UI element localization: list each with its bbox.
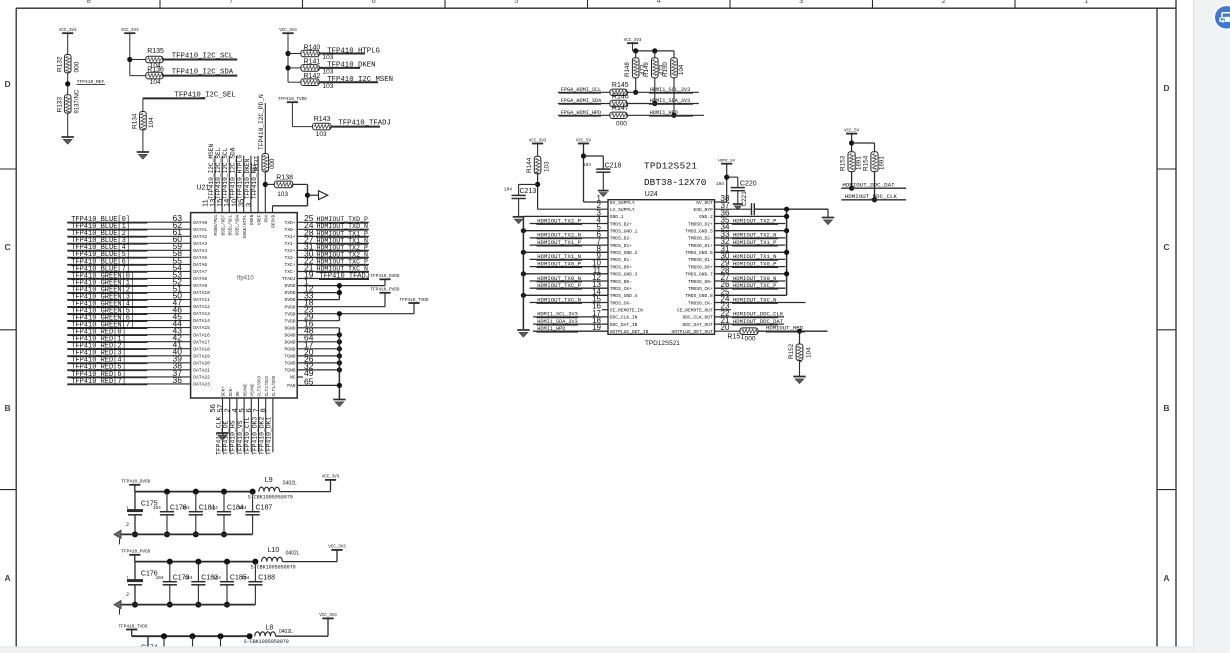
svg-text:TMDS_D1-: TMDS_D1-: [610, 257, 632, 263]
svg-text:TFP410_I2C_SCL: TFP410_I2C_SCL: [172, 53, 233, 61]
svg-text:R142: R142: [304, 73, 321, 80]
svg-text:L8: L8: [266, 625, 274, 632]
svg-text:DATA23: DATA23: [193, 382, 210, 388]
svg-text:TGND: TGND: [284, 368, 295, 374]
svg-text:VCC_5V: VCC_5V: [576, 139, 592, 143]
svg-text:DATA2: DATA2: [193, 234, 207, 240]
svg-text:HDMI1_SCL_3V3: HDMI1_SCL_3V3: [650, 87, 690, 93]
svg-text:R154: R154: [863, 155, 870, 171]
svg-text:TFP410_RED[7]: TFP410_RED[7]: [71, 378, 126, 386]
svg-text:HDMIOUT_TXD_P: HDMIOUT_TXD_P: [317, 216, 368, 223]
svg-text:HDMIOUT_TX2_N: HDMIOUT_TX2_N: [733, 232, 777, 239]
svg-text:TMDS_CK-: TMDS_CK-: [610, 300, 632, 306]
svg-text:C220: C220: [740, 180, 757, 187]
svg-text:NC: NC: [290, 375, 296, 381]
svg-text:DATA18: DATA18: [193, 346, 210, 352]
svg-text:104: 104: [150, 79, 161, 86]
svg-text:TFP410_TFADJ: TFP410_TFADJ: [338, 120, 391, 128]
svg-text:tfp410: tfp410: [237, 276, 254, 282]
svg-text:DDC_CLK_OUT: DDC_CLK_OUT: [682, 315, 713, 321]
svg-text:DATA21: DATA21: [193, 367, 210, 373]
svg-text:D: D: [1163, 83, 1169, 93]
svg-text:VSYNC: VSYNC: [251, 383, 256, 396]
svg-text:HDMIOUT_TXC_P: HDMIOUT_TXC_P: [317, 258, 368, 265]
svg-text:TFP410_I2C_MSEN: TFP410_I2C_MSEN: [327, 76, 393, 84]
svg-text:DKEN: DKEN: [250, 214, 255, 225]
svg-text:R144: R144: [526, 157, 533, 173]
svg-text:VCC_3V3: VCC_3V3: [624, 39, 642, 43]
svg-text:104: 104: [148, 117, 155, 128]
svg-text:HDMI1_HPD: HDMI1_HPD: [650, 110, 678, 116]
svg-text:HDMIOUT_TXC_N: HDMIOUT_TXC_N: [733, 296, 777, 303]
svg-text:TVDD: TVDD: [284, 311, 295, 317]
svg-text:TMDS_GND.6: TMDS_GND.6: [685, 250, 713, 256]
svg-text:HDMIOUT_TX1_P: HDMIOUT_TX1_P: [537, 239, 581, 246]
svg-text:104: 104: [678, 64, 685, 75]
svg-text:HDMI1_HPD: HDMI1_HPD: [537, 326, 565, 332]
svg-text:DATA0: DATA0: [193, 220, 207, 226]
svg-text:HDMI1_SDA_3V3: HDMI1_SDA_3V3: [650, 98, 690, 104]
svg-text:DVDD: DVDD: [284, 297, 295, 303]
svg-text:DCK-: DCK-: [229, 386, 234, 396]
svg-text:C: C: [1163, 242, 1169, 252]
svg-text:DE: DE: [236, 391, 241, 397]
svg-text:DATA22: DATA22: [193, 375, 210, 381]
svg-text:TFP410_PVDD: TFP410_PVDD: [371, 288, 400, 293]
svg-text:TMDS_D0-: TMDS_D0-: [610, 279, 632, 285]
svg-text:HDMIOUT_TX0_N: HDMIOUT_TX0_N: [733, 275, 777, 282]
svg-text:HSYNC: HSYNC: [243, 383, 248, 396]
svg-text:104: 104: [716, 181, 724, 187]
svg-text:TFP410_DK3: TFP410_DK3: [251, 416, 258, 455]
svg-text:104: 104: [153, 505, 161, 511]
svg-text:5: 5: [514, 0, 518, 5]
svg-text:FPGA_HDMI_SDA: FPGA_HDMI_SDA: [561, 98, 602, 104]
svg-text:HDMIOUT_TX1_P: HDMIOUT_TX1_P: [733, 239, 777, 246]
svg-text:DATA7: DATA7: [193, 269, 207, 275]
svg-text:B: B: [1163, 403, 1169, 413]
svg-text:TFP410_HS: TFP410_HS: [230, 420, 237, 455]
svg-text:BSEL/RST: BSEL/RST: [221, 214, 226, 235]
svg-text:2: 2: [126, 522, 129, 528]
svg-text:6: 6: [372, 0, 376, 5]
svg-text:TX1-: TX1-: [284, 241, 295, 247]
svg-text:HDMIOUT_TXC_P: HDMIOUT_TXC_P: [537, 282, 581, 289]
svg-text:TMDS_GND.1: TMDS_GND.1: [610, 229, 638, 235]
svg-text:VCC_3V3: VCC_3V3: [121, 29, 139, 33]
svg-text:TFP410_HTPLG: TFP410_HTPLG: [327, 47, 380, 55]
svg-text:HDMI_5V: HDMI_5V: [718, 160, 735, 164]
svg-text:3: 3: [244, 203, 253, 207]
svg-text:3: 3: [799, 0, 803, 5]
svg-text:104: 104: [156, 575, 164, 581]
svg-text:HDMIOUT_TX1_N: HDMIOUT_TX1_N: [733, 253, 777, 260]
svg-text:TGND: TGND: [284, 354, 295, 360]
svg-text:HDMIOUT_TX1_N: HDMIOUT_TX1_N: [537, 253, 581, 260]
svg-text:R133: R133: [57, 97, 64, 113]
svg-text:HDMIOUT_TX1_N: HDMIOUT_TX1_N: [317, 237, 368, 244]
svg-text:HDMIOUT_TXC_N: HDMIOUT_TXC_N: [537, 296, 581, 303]
svg-text:DVDD: DVDD: [284, 290, 295, 296]
svg-text:BSEL/SCL: BSEL/SCL: [229, 214, 234, 235]
svg-text:FPGA_HDMI_HPD: FPGA_HDMI_HPD: [561, 110, 601, 116]
svg-text:TMDS_D2-: TMDS_D2-: [610, 236, 632, 242]
svg-text:TMDSO_D0-: TMDSO_D0-: [688, 279, 713, 285]
svg-text:DATA15: DATA15: [193, 325, 210, 331]
svg-text:DATA13: DATA13: [193, 311, 210, 317]
svg-text:TFADJ: TFADJ: [282, 276, 296, 282]
svg-text:TFP410_DVDD: TFP410_DVDD: [121, 480, 150, 485]
svg-text:TFP410_I2C_SDA: TFP410_I2C_SDA: [229, 147, 236, 199]
svg-text:HOTPLUG_DET_IN: HOTPLUG_DET_IN: [610, 329, 649, 335]
svg-text:HDMIOUT_TXD_N: HDMIOUT_TXD_N: [317, 223, 368, 230]
svg-text:CLT2/DV2: CLT2/DV2: [265, 375, 270, 396]
svg-text:HDMI1_SDA_3V3: HDMI1_SDA_3V3: [537, 319, 577, 325]
svg-text:2: 2: [942, 0, 946, 5]
svg-text:TFP410_CTL: TFP410_CTL: [244, 416, 251, 455]
svg-text:TFP410_DKEN: TFP410_DKEN: [244, 158, 251, 199]
svg-text:TFP410_VS: TFP410_VS: [237, 420, 244, 455]
svg-text:TFP410_TFADJ: TFP410_TFADJ: [320, 272, 370, 280]
svg-text:L9: L9: [265, 477, 273, 484]
svg-text:DATA4: DATA4: [193, 248, 207, 254]
svg-text:4: 4: [657, 0, 661, 5]
svg-text:PD#: PD#: [265, 214, 270, 222]
svg-text:R146: R146: [612, 93, 629, 100]
svg-text:000: 000: [74, 61, 81, 72]
svg-text:TMDSO_CK-: TMDSO_CK-: [688, 300, 713, 306]
svg-text:TFP410_TVDD: TFP410_TVDD: [119, 624, 148, 629]
svg-text:VCC_3V3: VCC_3V3: [529, 139, 547, 143]
svg-text:103: 103: [316, 131, 327, 138]
svg-text:TMDSO_D2-: TMDSO_D2-: [688, 236, 713, 242]
svg-text:104: 104: [210, 505, 218, 511]
svg-text:TFP410_I2C_PD_N: TFP410_I2C_PD_N: [258, 94, 265, 150]
svg-text:R137: R137: [253, 156, 260, 171]
svg-text:DSEL/SDA: DSEL/SDA: [236, 214, 241, 235]
svg-text:C: C: [5, 242, 11, 252]
svg-text:TMDS_GND.8: TMDS_GND.8: [685, 293, 713, 299]
svg-text:PAD: PAD: [287, 383, 296, 389]
svg-text:TFP410_TVDD: TFP410_TVDD: [278, 97, 307, 102]
svg-text:0402L: 0402L: [286, 550, 300, 556]
svg-text:TFP410_DE: TFP410_DE: [223, 420, 230, 455]
svg-text:HDMIOUT_TX0_N: HDMIOUT_TX0_N: [537, 275, 581, 282]
svg-text:DGND: DGND: [284, 325, 295, 331]
svg-text:2: 2: [126, 592, 129, 598]
svg-text:TFP410_PVDD: TFP410_PVDD: [121, 550, 150, 555]
svg-text:DGND: DGND: [284, 332, 295, 338]
svg-text:TPD12S521: TPD12S521: [644, 160, 697, 171]
svg-text:HOTPLUG_DET_OUT: HOTPLUG_DET_OUT: [671, 329, 713, 335]
svg-text:L10: L10: [268, 547, 280, 554]
svg-text:C187: C187: [256, 504, 273, 511]
svg-text:A: A: [1163, 573, 1169, 583]
svg-text:8: 8: [87, 0, 91, 5]
svg-text:TFP410_DK2: TFP410_DK2: [259, 416, 266, 455]
svg-text:5V_OUT: 5V_OUT: [696, 200, 713, 206]
svg-text:TMDS_D2+: TMDS_D2+: [610, 221, 632, 227]
svg-text:S-CBK1005050070: S-CBK1005050070: [244, 639, 289, 645]
svg-text:TFP410_I2C_SEL: TFP410_I2C_SEL: [215, 147, 222, 199]
svg-text:TMDS_GND.7: TMDS_GND.7: [685, 272, 713, 278]
svg-text:HDMI1_SCL_3V3: HDMI1_SCL_3V3: [537, 312, 577, 318]
svg-text:VCC_3V3: VCC_3V3: [328, 546, 346, 550]
svg-text:TXC+: TXC+: [284, 262, 295, 268]
svg-text:DATA8: DATA8: [193, 276, 207, 282]
svg-text:TXD-: TXD-: [284, 227, 295, 233]
svg-text:TMDS_CK+: TMDS_CK+: [610, 286, 632, 292]
svg-text:B: B: [5, 403, 11, 413]
svg-text:DATA12: DATA12: [193, 304, 210, 310]
svg-text:TFP410_I2C_MSEN: TFP410_I2C_MSEN: [208, 144, 215, 200]
svg-text:TFP410_TVDD: TFP410_TVDD: [400, 298, 429, 303]
svg-text:HDMIOUT_TX2_N: HDMIOUT_TX2_N: [317, 251, 368, 258]
svg-text:DGND: DGND: [284, 339, 295, 345]
svg-text:DDC_DAT_IN: DDC_DAT_IN: [610, 322, 638, 328]
svg-text:HDMIOUT_TX2_P: HDMIOUT_TX2_P: [317, 244, 368, 251]
svg-text:HDMIOUT_TXC_P: HDMIOUT_TXC_P: [733, 282, 777, 289]
svg-text:104: 104: [583, 162, 591, 168]
svg-text:C213: C213: [520, 188, 537, 195]
svg-text:DVDD: DVDD: [284, 283, 295, 289]
svg-text:104: 104: [184, 575, 192, 581]
svg-text:PVDD: PVDD: [284, 304, 295, 310]
svg-text:1691: 1691: [879, 156, 886, 170]
svg-text:9137/NC: 9137/NC: [75, 89, 81, 113]
svg-text:TX1+: TX1+: [284, 234, 295, 240]
svg-text:1: 1: [1084, 0, 1088, 5]
svg-text:104: 104: [182, 505, 190, 511]
svg-text:000: 000: [616, 120, 627, 127]
svg-text:CLT3/DV3: CLT3/DV3: [258, 375, 263, 396]
svg-text:R140: R140: [304, 44, 321, 51]
svg-text:CLT1/DV0: CLT1/DV0: [272, 375, 277, 396]
svg-text:HDMIOUT_DDC_DAT: HDMIOUT_DDC_DAT: [842, 182, 895, 189]
svg-text:R143: R143: [314, 116, 331, 123]
svg-text:VCC_3V3: VCC_3V3: [279, 29, 297, 33]
svg-text:DDC_CLK_IN: DDC_CLK_IN: [610, 315, 638, 321]
svg-text:DATA6: DATA6: [193, 262, 207, 268]
svg-text:DATA17: DATA17: [193, 339, 210, 345]
svg-text:TMDS_GND.3: TMDS_GND.3: [610, 272, 638, 278]
svg-text:HDMIOUT_TX0_P: HDMIOUT_TX0_P: [537, 260, 581, 267]
svg-text:S-CBK1005050070: S-CBK1005050070: [248, 494, 293, 500]
svg-text:TMDS_D0+: TMDS_D0+: [610, 264, 632, 270]
svg-text:R148: R148: [624, 62, 631, 77]
svg-text:HDMIOUT_TX0_P: HDMIOUT_TX0_P: [733, 260, 777, 267]
svg-text:R138: R138: [276, 174, 293, 181]
svg-text:TX2-: TX2-: [284, 255, 295, 261]
svg-text:HDMIOUT_HPD: HDMIOUT_HPD: [766, 325, 804, 332]
svg-text:TMDS_GND.4: TMDS_GND.4: [610, 293, 638, 299]
svg-text:104: 104: [213, 575, 221, 581]
svg-text:C218: C218: [605, 162, 622, 169]
svg-text:103: 103: [277, 191, 288, 198]
svg-text:DATA11: DATA11: [193, 297, 210, 303]
svg-text:R150: R150: [662, 62, 669, 77]
svg-text:TVDD: TVDD: [284, 318, 295, 324]
svg-text:D: D: [5, 79, 11, 89]
svg-text:TGND: TGND: [284, 361, 295, 367]
svg-text:HDMIOUT_TX2_N: HDMIOUT_TX2_N: [537, 232, 581, 239]
svg-text:DCK+: DCK+: [222, 386, 227, 397]
svg-text:R132: R132: [57, 56, 64, 72]
svg-text:DATA19: DATA19: [193, 353, 210, 359]
svg-text:VCC_3V3: VCC_3V3: [59, 29, 77, 33]
svg-text:DDC_DAT_OUT: DDC_DAT_OUT: [682, 322, 713, 328]
svg-text:TMDS_GND.2: TMDS_GND.2: [610, 250, 638, 256]
svg-text:TMDSO_CK+: TMDSO_CK+: [688, 286, 713, 292]
svg-text:DBT38-12X70: DBT38-12X70: [644, 177, 706, 188]
svg-text:DATA5: DATA5: [193, 255, 207, 261]
svg-text:TMDS_GND.5: TMDS_GND.5: [685, 229, 713, 235]
svg-text:R149: R149: [643, 62, 650, 77]
svg-text:TMDS_D1+: TMDS_D1+: [610, 243, 632, 249]
svg-text:RESVD: RESVD: [272, 214, 277, 227]
svg-text:VCC_3V3: VCC_3V3: [319, 614, 337, 618]
svg-text:R147: R147: [612, 105, 629, 112]
svg-text:TFP410_DK1: TFP410_DK1: [266, 416, 273, 455]
svg-text:HDMIOUT_TX2_P: HDMIOUT_TX2_P: [537, 217, 581, 224]
svg-text:104: 104: [504, 186, 512, 192]
svg-text:VCC_3V3: VCC_3V3: [322, 476, 340, 480]
svg-text:0402L: 0402L: [283, 480, 297, 486]
svg-text:R141: R141: [304, 59, 321, 66]
svg-text:HDMIOUT_TX2_P: HDMIOUT_TX2_P: [733, 217, 777, 224]
svg-text:HDMIOUT_TXC_N: HDMIOUT_TXC_N: [317, 265, 368, 272]
svg-text:CE_REMOTE_IN: CE_REMOTE_IN: [610, 308, 643, 314]
svg-text:TMDSO_D1+: TMDSO_D1+: [688, 243, 713, 249]
svg-text:R152: R152: [788, 343, 795, 359]
svg-text:000: 000: [745, 335, 756, 342]
svg-text:7: 7: [229, 0, 233, 5]
svg-text:MSEN/PD1: MSEN/PD1: [214, 214, 219, 235]
svg-text:GND.2: GND.2: [699, 214, 713, 220]
svg-text:EDGE/HTPL: EDGE/HTPL: [243, 214, 248, 238]
svg-text:C188: C188: [258, 574, 275, 581]
svg-text:0402L: 0402L: [279, 629, 293, 635]
svg-text:U24: U24: [645, 191, 658, 198]
svg-text:65: 65: [304, 376, 314, 386]
svg-text:PGND: PGND: [284, 346, 295, 352]
svg-text:103: 103: [543, 161, 550, 172]
svg-text:TFP410_DKEN: TFP410_DKEN: [327, 62, 375, 70]
svg-text:104: 104: [805, 347, 812, 358]
svg-text:TXC-: TXC-: [284, 269, 295, 275]
svg-text:R153: R153: [840, 155, 847, 171]
svg-text:DATA3: DATA3: [193, 241, 207, 247]
svg-text:TFP410_I2C_SDA: TFP410_I2C_SDA: [172, 69, 234, 77]
svg-text:TFP410_HTPLG: TFP410_HTPLG: [237, 155, 244, 200]
svg-text:R145: R145: [612, 82, 629, 89]
svg-text:A: A: [5, 573, 11, 583]
svg-text:TXD+: TXD+: [284, 220, 295, 226]
svg-text:104: 104: [241, 575, 249, 581]
svg-text:VCC_5V: VCC_5V: [844, 129, 860, 133]
svg-text:S-CBK1005050070: S-CBK1005050070: [251, 564, 296, 570]
svg-text:R136: R136: [147, 66, 164, 73]
svg-text:CE_REMOTE_OUT: CE_REMOTE_OUT: [677, 308, 713, 314]
svg-text:HDMIOUT_TX1_P: HDMIOUT_TX1_P: [317, 230, 368, 237]
svg-text:DATA1: DATA1: [193, 227, 207, 233]
svg-text:HDMIOUT_DDC_CLK: HDMIOUT_DDC_CLK: [733, 311, 784, 318]
svg-text:TFP410_I2C_SCL: TFP410_I2C_SCL: [222, 147, 229, 199]
svg-text:ESD_BYP: ESD_BYP: [693, 207, 713, 213]
svg-text:8: 8: [259, 408, 268, 412]
svg-text:DATA10: DATA10: [193, 290, 210, 296]
svg-text:5V_SUPPLY: 5V_SUPPLY: [610, 200, 635, 206]
svg-text:TMDSO_D1-: TMDSO_D1-: [688, 257, 713, 263]
svg-text:TMDSO_D2+: TMDSO_D2+: [688, 221, 713, 227]
svg-text:DATA16: DATA16: [193, 332, 210, 338]
svg-text:36: 36: [173, 375, 183, 385]
svg-text:LV_SUPPLY: LV_SUPPLY: [610, 207, 635, 213]
svg-text:TMDSO_D0+: TMDSO_D0+: [688, 264, 713, 270]
svg-text:104: 104: [238, 505, 246, 511]
svg-text:000: 000: [269, 158, 276, 169]
svg-text:R151: R151: [727, 334, 744, 341]
svg-text:FPGA_HDMI_SCL: FPGA_HDMI_SCL: [561, 87, 601, 93]
svg-text:DATA14: DATA14: [193, 318, 210, 324]
svg-text:DATA9: DATA9: [193, 283, 207, 289]
svg-text:TX2+: TX2+: [284, 248, 295, 254]
svg-text:C221: C221: [741, 191, 748, 207]
svg-text:GND.1: GND.1: [610, 214, 624, 220]
svg-text:DATA20: DATA20: [193, 360, 210, 366]
svg-text:TPD12S521: TPD12S521: [645, 340, 680, 347]
svg-text:R135: R135: [147, 48, 164, 55]
svg-text:TFP410_DVDD: TFP410_DVDD: [371, 274, 400, 279]
svg-text:HDMIOUT_DDC_CLK: HDMIOUT_DDC_CLK: [845, 193, 898, 200]
svg-text:R134: R134: [132, 113, 139, 129]
svg-text:VREF: VREF: [257, 214, 262, 225]
